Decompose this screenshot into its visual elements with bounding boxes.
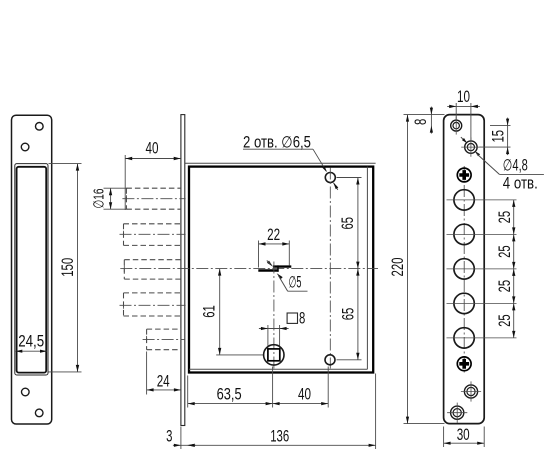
- phi4,8 shelf line: [499, 173, 544, 175]
- dim 150 line with arrows: [77, 164, 79, 372]
- right view: hole 1 center line to dim: [447, 199, 517, 201]
- svg-text:65: 65: [339, 217, 357, 230]
- leader arrow lower tail: [334, 183, 338, 190]
- dim 136 line with arrows: [188, 444, 376, 446]
- right view: countersunk screw lower: [457, 357, 471, 371]
- svg-text:∅16: ∅16: [91, 189, 107, 209]
- svg-text:24,5: 24,5: [18, 333, 44, 351]
- dim 15 ext line top: [490, 125, 511, 127]
- dim 40 top extension line: [124, 155, 126, 210]
- dim 10 ext line left: [455, 103, 457, 121]
- left view: screw hole lower-left: [22, 388, 30, 396]
- svg-text:25: 25: [496, 314, 514, 327]
- dim 25 #4 line with arrows: [513, 303, 515, 338]
- dim 150 extension line top: [49, 163, 82, 165]
- dim 8 line with arrows: [259, 328, 289, 330]
- dim 25 #3 line with arrows: [513, 269, 515, 304]
- dim 24 extension line: [146, 352, 148, 395]
- svg-text:30: 30: [457, 426, 470, 444]
- dim 22 line with arrows: [259, 243, 290, 245]
- dim 65 extension from bottom hole: [337, 359, 362, 361]
- phi5 leader line to shelf: [279, 276, 288, 291]
- dim 8 ext line left: [267, 325, 269, 349]
- hole 2x phi6,5 top-right circle: [325, 173, 335, 183]
- svg-text:150: 150: [59, 258, 77, 277]
- right view: hole 4 center line to dim: [447, 302, 517, 304]
- dim 22 ext line left: [258, 241, 260, 268]
- svg-text:24: 24: [157, 372, 170, 390]
- phi4,8 leader arrow lower: [475, 151, 480, 156]
- dim phi16 extension line bottom: [104, 208, 128, 210]
- latch lower bar: [258, 269, 278, 271]
- middle view: case inner thin line bottom: [189, 368, 367, 370]
- dim 10 ext line right: [470, 103, 472, 142]
- right view: hole 3 center line to dim: [447, 268, 517, 270]
- dim 61 extension to spindle: [216, 354, 263, 356]
- svg-text:∅4,8: ∅4,8: [503, 156, 528, 174]
- leader arrow upper: [322, 166, 327, 173]
- dim 65 upper line with arrows: [357, 178, 359, 269]
- svg-text:63,5: 63,5: [217, 385, 242, 403]
- dim 63,5/40 ext line at right hole: [327, 367, 329, 408]
- dim 136 ext line right: [375, 374, 377, 450]
- dim 40 top line with arrows: [125, 158, 181, 160]
- svg-text:61: 61: [201, 305, 219, 318]
- middle view: case top thin flange line: [185, 162, 376, 164]
- dim 220 ext line bottom: [404, 423, 445, 425]
- label 2 otv. phi6,5 shelf line: [243, 148, 313, 150]
- leader arrow lower: [333, 182, 338, 189]
- dim 22 ext line right: [288, 241, 290, 266]
- right view: countersunk screw upper: [457, 168, 471, 182]
- svg-text:∅5: ∅5: [289, 273, 302, 291]
- hidden boss 4: [124, 292, 181, 294]
- phi4,8 leader line: [477, 154, 499, 174]
- middle view: case thick outline: [189, 167, 373, 373]
- dim phi16 extension line top: [104, 187, 128, 189]
- hidden boss 3 (latch follower): [124, 259, 181, 261]
- dim 65 lower line with arrows: [357, 269, 359, 360]
- hidden boss 2: [124, 223, 181, 225]
- svg-text:25: 25: [496, 280, 514, 293]
- svg-text:22: 22: [267, 226, 280, 244]
- svg-text:8: 8: [299, 310, 305, 328]
- latch upper bar: [273, 265, 291, 267]
- svg-text:65: 65: [340, 308, 358, 321]
- dim 3 ext line faceplate: [180, 427, 182, 450]
- right view: phi4,8 hole bottom: [464, 385, 477, 398]
- left view: screw hole upper-left: [21, 143, 29, 151]
- dim 150 extension line bottom: [49, 371, 82, 373]
- dim 65 extension from top hole: [337, 177, 362, 179]
- spindle square hole: [268, 349, 280, 361]
- dim 40 line with arrows: [273, 403, 329, 405]
- dim 30 line with arrows: [444, 442, 485, 444]
- dim 3 line with arrows: [173, 444, 196, 446]
- middle view: faceplate bar (edge-on): [181, 115, 185, 426]
- vertical center line through right holes: [329, 168, 331, 369]
- right view: hole 5 center line to dim: [447, 337, 517, 339]
- hidden boss 1 (cylinder phi16): [126, 187, 180, 189]
- dim 25 #2 line with arrows: [513, 234, 515, 269]
- dim 8rv line with arrows: [430, 107, 432, 134]
- dim 15 ext line bottom: [480, 146, 511, 148]
- phi4,8 leader tail upper: [461, 137, 463, 139]
- left view: screw hole top-right: [36, 123, 44, 131]
- dim 8rv ext line plate top: [404, 114, 445, 116]
- dim 220 line with arrows: [407, 115, 409, 424]
- right view: large hole 1: [454, 190, 474, 210]
- dim 30 ext line left: [443, 427, 445, 448]
- svg-text:25: 25: [496, 245, 514, 258]
- middle view: case inner thin line right: [366, 167, 368, 370]
- dim 61 line with arrows: [219, 269, 221, 355]
- svg-text:15: 15: [490, 130, 508, 143]
- svg-text:136: 136: [270, 428, 289, 446]
- left view: strike plate outer outline: [12, 115, 52, 424]
- svg-text:8: 8: [412, 119, 430, 125]
- phi5 leader lower arrow: [277, 273, 283, 279]
- label leader line to hole: [313, 149, 326, 171]
- dim 24,5 line with arrows: [15, 350, 47, 352]
- right view: hole 2 center line to dim: [447, 233, 517, 235]
- dim 30 ext line right: [483, 427, 485, 448]
- right view: large hole 4: [454, 293, 474, 313]
- right view: faceplate outline: [444, 115, 485, 424]
- dim 63,5 line with arrows: [188, 403, 273, 405]
- left view: recess pocket inner line: [17, 167, 47, 373]
- dim 63,5/40 ext line at case front: [187, 376, 189, 408]
- svg-text:40: 40: [146, 140, 159, 158]
- svg-text:3: 3: [166, 428, 172, 446]
- right view: large hole 2: [454, 224, 474, 244]
- left view: recess pocket outer line: [15, 164, 48, 375]
- svg-text:25: 25: [496, 211, 514, 224]
- latch step: [277, 265, 279, 271]
- svg-text:220: 220: [389, 258, 407, 277]
- dim 24 line with arrows: [147, 389, 181, 391]
- right view: top screw hole: [451, 120, 462, 131]
- spindle vertical center line: [273, 262, 275, 369]
- dim 25 #1 line with arrows: [513, 200, 515, 235]
- svg-text:10: 10: [457, 88, 470, 106]
- dim phi16 line with arrows: [110, 188, 112, 209]
- right view: large hole 3: [454, 259, 474, 279]
- hole 2x phi6,5 bottom-right circle: [325, 355, 335, 365]
- spindle circle: [264, 345, 284, 365]
- right view: phi4,8 hole top: [465, 141, 477, 153]
- svg-text:40: 40: [298, 385, 311, 403]
- dim 10 line with arrows: [447, 105, 480, 107]
- left view: screw hole bottom-right: [35, 409, 43, 417]
- phi5 leader upper tail: [267, 261, 271, 265]
- hidden boss 5 (lower cylinder): [147, 328, 181, 330]
- phi4,8 leader arrow upper: [462, 138, 467, 143]
- dim 8 ext line right: [279, 325, 281, 349]
- svg-text:4 отв.: 4 отв.: [503, 174, 538, 192]
- dim 15 line with arrows: [507, 118, 509, 156]
- label square symbol: [287, 313, 297, 323]
- right view: vertical center line: [463, 166, 465, 373]
- phi5 shelf line: [288, 290, 308, 292]
- dim 63,5/40 ext line at spindle: [272, 367, 274, 408]
- right view: large hole 5: [454, 328, 474, 348]
- right view: bottom screw hole: [451, 406, 464, 419]
- phi5 leader upper arrow: [267, 261, 273, 267]
